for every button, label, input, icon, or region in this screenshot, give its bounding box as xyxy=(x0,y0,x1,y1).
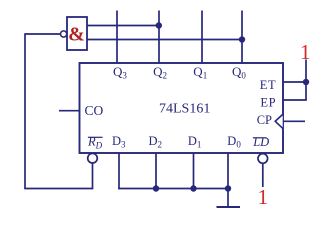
svg-text:&: & xyxy=(68,24,85,46)
pin bubble LD xyxy=(258,154,268,164)
wire D3 stub xyxy=(118,153,120,189)
wire bottom feedback horizontal xyxy=(24,188,92,190)
wire nand input top xyxy=(87,25,159,27)
svg-text:CO: CO xyxy=(85,103,104,118)
wire Q3 stub xyxy=(116,11,118,64)
CP clock edge triangle xyxy=(275,114,283,128)
wire left vertical feedback xyxy=(24,33,26,188)
wire D bus xyxy=(118,188,228,190)
svg-text:LD: LD xyxy=(252,135,269,149)
svg-text:1: 1 xyxy=(300,40,311,64)
svg-text:74LS161: 74LS161 xyxy=(159,102,210,117)
nand gate G1 output bubble xyxy=(61,31,67,37)
nand gate G1 body xyxy=(67,17,87,50)
wire CP stub xyxy=(283,120,305,122)
junction dot D2 xyxy=(153,185,159,191)
wire LD down xyxy=(262,164,264,188)
wire vertical to logic 1 xyxy=(305,60,307,101)
svg-text:CP: CP xyxy=(257,113,272,127)
wire nand output left xyxy=(25,33,61,35)
junction dot D1 xyxy=(190,185,196,191)
junction dot ET xyxy=(303,79,309,85)
overline of RD xyxy=(88,136,103,138)
pin bubble RD xyxy=(88,153,98,163)
svg-text:EP: EP xyxy=(260,95,276,109)
svg-text:1: 1 xyxy=(258,185,269,209)
wire Q0 stub xyxy=(241,11,243,64)
wire up to RD bubble xyxy=(92,163,94,189)
wire nand input bottom xyxy=(87,39,242,41)
wire D1 stub xyxy=(193,153,195,189)
svg-text:ET: ET xyxy=(260,78,276,92)
wire D2 stub xyxy=(155,153,157,189)
wire CO stub xyxy=(59,110,80,112)
junction dot on Q0 line xyxy=(239,36,245,42)
wire ET xyxy=(283,81,306,83)
wire EP xyxy=(283,99,307,101)
junction dot on Q2 line xyxy=(156,22,162,28)
IC U1 74LS161 body xyxy=(80,63,284,153)
wire Q1 stub xyxy=(201,11,203,64)
wire D0 stub xyxy=(227,153,229,189)
junction dot D0 xyxy=(225,185,231,191)
overline of LD xyxy=(253,137,267,139)
ground wire xyxy=(227,189,229,208)
ground bar xyxy=(217,206,241,208)
wire Q2 stub xyxy=(158,11,160,64)
